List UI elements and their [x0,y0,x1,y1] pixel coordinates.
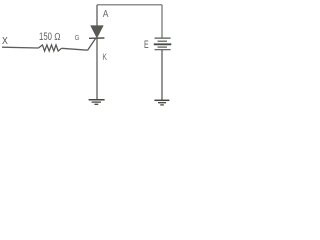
ground right bar 2 [158,102,166,104]
wire gate diagonal lead into SCR [88,38,96,50]
battery E plate 1 long [155,37,171,39]
wire right vertical down to battery [161,5,163,38]
svg-text:150: 150 [39,31,52,43]
ground right bar 1 [154,99,169,101]
battery E plate 5 long [155,49,171,51]
thyristor U1 anode lead wire [96,5,98,26]
ground left bar 3 [94,103,98,105]
svg-text:E: E [144,39,149,51]
wire gate-left segment [2,46,39,49]
ground left bar 1 [89,99,105,101]
ground right bar 3 [160,104,164,106]
svg-text:X: X [2,35,8,47]
svg-text:A: A [103,9,109,20]
ground left bar 2 [92,101,101,103]
wire top: anode to battery [97,4,162,6]
svg-text:G: G [75,33,80,42]
svg-text:Ω: Ω [54,31,60,43]
thyristor U1 triangle (anode to cathode) [91,26,103,38]
wire battery bottom lead [161,50,163,100]
battery E plate 2 short [158,40,168,42]
resistor R1 150 ohm zigzag [39,45,62,51]
battery E plate 3 long thick [154,43,172,45]
thyristor U1 cathode lead wire [96,38,98,99]
battery E plate 4 short [158,46,168,48]
thyristor U1 cathode bar [89,37,104,39]
wire gate-right segment [62,48,88,50]
svg-text:K: K [102,52,107,62]
